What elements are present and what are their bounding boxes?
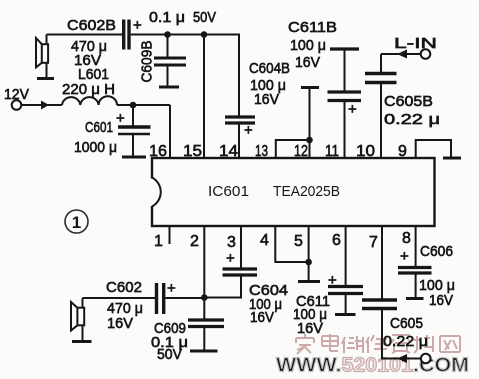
svg-text:+: + (348, 101, 357, 118)
svg-text:16V: 16V (295, 54, 320, 71)
capacitor C609 (188, 320, 224, 351)
capacitor C609B (154, 35, 186, 88)
svg-text:6: 6 (332, 232, 341, 249)
svg-text:C602B: C602B (67, 17, 116, 34)
pin 5 wire + open terminal (298, 226, 320, 282)
svg-text:16: 16 (149, 143, 167, 160)
svg-text:14: 14 (219, 143, 238, 160)
speaker LS top-left (36, 35, 54, 79)
svg-text:C605: C605 (390, 315, 423, 332)
12V terminal (4, 86, 62, 110)
capacitor C604B (225, 117, 255, 158)
svg-text:+: + (133, 17, 142, 34)
wire staple pin9 to open terminal (416, 140, 451, 158)
svg-text:0.1 μ: 0.1 μ (149, 9, 185, 26)
IC U601 body (152, 158, 435, 226)
node dot rail-pin15 (201, 31, 208, 38)
svg-text:3: 3 (227, 234, 236, 251)
svg-text:C611B: C611B (288, 19, 337, 36)
svg-text:11: 11 (325, 143, 339, 160)
pin 3 wire + capacitor C604 (204, 226, 257, 298)
node dot pin4-pin5 (305, 259, 312, 266)
node dot pin2/C602/C604 (201, 294, 208, 301)
pin 2 wire down (203, 226, 205, 319)
svg-text:C604B: C604B (249, 60, 290, 77)
L-IN input terminal (381, 35, 437, 59)
svg-text:16V: 16V (429, 292, 453, 309)
node dot 12V-C601 (130, 102, 137, 109)
svg-text:16V: 16V (107, 315, 133, 332)
capacitor C602 (83, 283, 205, 314)
svg-text:220 μ H: 220 μ H (62, 81, 115, 98)
svg-text:C601: C601 (85, 119, 113, 136)
svg-text:1000 μ: 1000 μ (74, 139, 117, 156)
svg-text:1: 1 (72, 213, 81, 232)
wire speaker to C602B (47, 34, 123, 36)
open terminal above pin12 (301, 88, 319, 141)
pin numbers bottom row (154, 230, 411, 251)
svg-text:+: + (400, 248, 409, 265)
svg-text:9: 9 (398, 143, 407, 160)
svg-text:1: 1 (154, 233, 163, 250)
svg-text:+: + (167, 280, 176, 297)
svg-text:8: 8 (402, 230, 411, 247)
open terminal right of pin9 (443, 157, 461, 160)
svg-text:0.22 μ: 0.22 μ (384, 111, 440, 128)
svg-text:+: + (328, 272, 337, 289)
wire staple pin13-pin12 (276, 140, 310, 158)
circled figure number 1 (65, 210, 88, 233)
wire top rail (131, 35, 239, 116)
svg-text:+: + (244, 122, 253, 139)
svg-text:7: 7 (369, 234, 378, 251)
svg-text:2: 2 (190, 233, 199, 250)
svg-text:16V: 16V (254, 91, 279, 108)
svg-text:5: 5 (294, 233, 303, 250)
capacitor C601 (118, 105, 151, 157)
svg-text:15: 15 (183, 143, 202, 160)
svg-text:16V: 16V (297, 320, 323, 337)
svg-text:10: 10 (356, 143, 375, 160)
node dot pin12 staple (306, 137, 313, 144)
svg-text:4: 4 (260, 232, 269, 249)
faint red watermark remnants (283, 159, 413, 161)
capacitor C606 (398, 226, 432, 299)
svg-text:+: + (116, 110, 125, 127)
svg-text:IC601: IC601 (208, 183, 249, 200)
watermark chinese characters (296, 334, 460, 354)
svg-text:C609B: C609B (139, 41, 156, 83)
capacitor C605 + output wire (362, 226, 421, 359)
pin 1 stub (169, 226, 171, 244)
svg-text:0.22 μ: 0.22 μ (383, 333, 428, 350)
capacitor C611 (328, 226, 363, 315)
svg-text:TEA2025B: TEA2025B (273, 183, 340, 200)
svg-text:50V: 50V (157, 346, 182, 363)
svg-text:WWW.520101.COM: WWW.520101.COM (276, 355, 469, 377)
svg-text:12: 12 (294, 143, 308, 160)
capacitor C602B (67, 17, 142, 69)
svg-text:50V: 50V (193, 9, 216, 26)
svg-text:C606: C606 (420, 243, 453, 260)
svg-text:100 μ: 100 μ (290, 37, 326, 54)
svg-text:L-IN: L-IN (394, 35, 437, 52)
svg-text:13: 13 (255, 143, 268, 160)
capacitor C611B (328, 49, 362, 158)
svg-text:16V: 16V (250, 309, 274, 326)
svg-text:C602: C602 (106, 279, 142, 296)
inductor L601 (62, 96, 170, 158)
svg-text:+: + (226, 250, 235, 267)
wire staple pin4-pin5 (275, 226, 308, 262)
pin numbers top row (149, 143, 407, 160)
speaker LS bottom-left (71, 298, 92, 342)
svg-text:C605B: C605B (384, 93, 433, 110)
capacitor C605B (365, 54, 397, 158)
node dot rail-C609B (164, 31, 171, 38)
pin 15 riser wire (203, 35, 205, 159)
